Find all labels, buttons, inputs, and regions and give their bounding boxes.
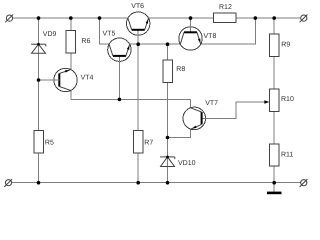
resistor R9 (269, 34, 279, 57)
transistor VT5 (108, 38, 131, 62)
transistor VT7 (183, 107, 206, 130)
wire R8 / VD10 column (167, 44, 169, 183)
node top rail VD9 (37, 16, 41, 20)
wire VT7 base to R10 wiper (201, 102, 267, 118)
resistor R6 (66, 30, 76, 53)
svg-text:VD9: VD9 (43, 31, 57, 38)
resistor R7 (133, 130, 143, 153)
wire top rail left segment (13, 17, 128, 19)
node top rail VT8 emitter (254, 16, 258, 20)
ground (267, 183, 282, 193)
terminal common bottom-right (300, 179, 308, 187)
svg-text:VT7: VT7 (205, 100, 218, 107)
wire net VT5 emitter to VT8 collector (130, 43, 181, 45)
node top rail VT5 link (98, 16, 102, 20)
terminal common bottom-left (4, 179, 12, 187)
svg-text:R8: R8 (176, 66, 185, 73)
terminal output top-right (300, 15, 308, 23)
node VT5 base row (118, 98, 122, 102)
svg-text:R6: R6 (81, 38, 90, 45)
node VT6 base / VT5 emitter (136, 42, 140, 46)
svg-text:R7: R7 (144, 140, 153, 147)
svg-text:VT4: VT4 (81, 75, 94, 82)
svg-text:VT8: VT8 (204, 33, 217, 40)
zener diode VD9 (31, 43, 46, 53)
node R8 top / VT8 collector (166, 42, 170, 46)
zener diode VD10 (160, 156, 175, 167)
svg-text:R5: R5 (45, 140, 54, 147)
terminal input top-left (5, 15, 13, 23)
wire VT4 base lead (39, 79, 60, 81)
svg-text:R9: R9 (281, 41, 290, 48)
node top rail R6 (69, 16, 73, 20)
wire top rail middle segment (149, 17, 214, 19)
node VT4 base / VD9 column (37, 78, 41, 82)
resistor R12 (213, 13, 236, 22)
node bottom rail R7 (136, 181, 140, 185)
wire VD9/R5 column (38, 18, 40, 183)
wire R9/R10/R11 column (273, 18, 275, 183)
wire R6 column (70, 18, 72, 69)
node VT7 emitter / VD10 (166, 136, 170, 140)
node bottom rail R5 (37, 181, 41, 185)
wire top rail to VT5 collector (100, 18, 110, 44)
svg-text:R12: R12 (219, 4, 232, 11)
svg-text:VD10: VD10 (178, 160, 196, 167)
transistor VT8 (179, 26, 202, 50)
wire VT5 base column (118, 56, 120, 100)
resistor R11 (269, 144, 279, 166)
wire VT8 base lead (190, 18, 192, 45)
transistor VT4 (53, 68, 77, 91)
svg-text:R10: R10 (281, 96, 294, 103)
potentiometer R10 (264, 89, 279, 111)
svg-text:VT5: VT5 (103, 30, 116, 37)
resistor R8 (163, 60, 173, 83)
node bottom rail ground (272, 181, 276, 185)
transistor VT6 (127, 12, 150, 36)
node top rail R9 (272, 16, 276, 20)
wire VT6 base / R7 column (137, 30, 139, 183)
wire VT7 emitter drop and row (168, 129, 191, 137)
wire collector row to VT7 (71, 99, 191, 107)
wire VT4 collector drop (70, 90, 72, 99)
wire top rail right segment (236, 17, 301, 19)
resistor R5 (34, 130, 44, 153)
node top rail VT8 base (189, 16, 193, 20)
node bottom rail VD10 (166, 181, 170, 185)
svg-text:R11: R11 (281, 151, 293, 158)
svg-text:VT6: VT6 (131, 3, 144, 10)
wire VT8 emitter to top rail (201, 18, 256, 44)
wire bottom rail (12, 182, 301, 184)
